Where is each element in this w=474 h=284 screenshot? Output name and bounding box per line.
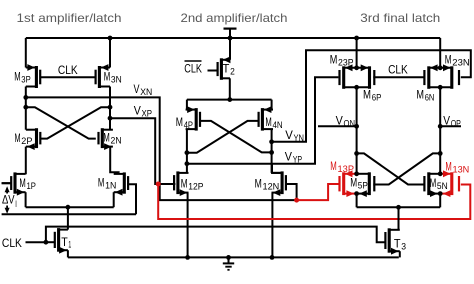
svg-text:5P: 5P bbox=[358, 181, 368, 191]
wire M4N gate lead + diagonal bbox=[187, 121, 259, 153]
svg-text:CLK: CLK bbox=[58, 63, 78, 77]
svg-text:V: V bbox=[134, 103, 141, 117]
svg-text:XP: XP bbox=[142, 108, 153, 118]
wire T1 drain up bbox=[67, 207, 69, 229]
svg-text:M: M bbox=[176, 115, 183, 129]
svg-text:3rd final latch: 3rd final latch bbox=[360, 11, 440, 25]
transistor M2N bbox=[101, 128, 104, 148]
wire tail node section1 bbox=[26, 206, 114, 208]
svg-text:3P: 3P bbox=[21, 74, 30, 84]
wire M1N gate riser bbox=[128, 184, 136, 214]
transistor M2P bbox=[35, 128, 38, 148]
node cross-couple right bbox=[108, 105, 113, 110]
wire M3N source to VDD bbox=[109, 38, 111, 68]
wire M1P source down bbox=[25, 192, 27, 207]
svg-text:T: T bbox=[61, 235, 68, 249]
wire CLK gates M3P-M3N bbox=[40, 76, 95, 78]
svg-text:YN: YN bbox=[294, 133, 305, 143]
wire VYN route bbox=[272, 50, 471, 142]
wire T3 drain up bbox=[398, 207, 400, 230]
svg-text:T: T bbox=[394, 236, 401, 250]
wire M2N source down to M1N bbox=[110, 147, 118, 173]
svg-text:ON: ON bbox=[344, 119, 356, 129]
svg-text:M: M bbox=[15, 131, 21, 145]
transistor pair M13P M5P bbox=[342, 172, 345, 195]
wire tail U left bbox=[356, 194, 358, 207]
node diag tap left bbox=[185, 150, 190, 155]
svg-text:CLK: CLK bbox=[2, 236, 22, 250]
wire VON node bbox=[356, 87, 358, 173]
transistor pair M6N M23N bbox=[427, 66, 430, 89]
node VOP tick tap bbox=[438, 124, 443, 129]
wire dVI bottom line bbox=[2, 213, 136, 215]
transistor M12P bbox=[176, 171, 179, 194]
svg-text:1N: 1N bbox=[105, 181, 116, 191]
wire M3P drain down bbox=[25, 87, 27, 130]
svg-text:M: M bbox=[416, 88, 424, 102]
node gnd symbol tap bbox=[226, 255, 231, 260]
svg-text:4P: 4P bbox=[184, 120, 193, 130]
svg-text:3: 3 bbox=[401, 241, 406, 251]
node VYN tap bbox=[269, 139, 274, 144]
wire M4N source lead bbox=[271, 100, 273, 110]
transistor M3P bbox=[35, 66, 38, 88]
svg-text:M: M bbox=[330, 52, 338, 66]
svg-text:12N: 12N bbox=[263, 181, 280, 191]
node gnd M12P bbox=[185, 255, 190, 260]
node VOP diag tap bbox=[438, 151, 443, 156]
wire dVI top terminal bbox=[2, 182, 12, 184]
svg-text:M: M bbox=[104, 70, 111, 84]
wire red VXN to M13P bbox=[297, 184, 341, 200]
svg-text:M: M bbox=[181, 176, 188, 190]
wire VXN route bbox=[26, 97, 297, 200]
wire T2 drain down bbox=[229, 78, 231, 99]
svg-text:23N: 23N bbox=[452, 57, 469, 67]
wire M4N drain down bbox=[271, 129, 273, 173]
transistor pair M23P M6P bbox=[342, 66, 345, 89]
transistor M3N bbox=[98, 66, 101, 88]
wire CLK input lead bbox=[26, 241, 46, 243]
wire VXP route bbox=[110, 118, 175, 184]
wire VYP route bbox=[187, 77, 339, 164]
svg-text:V: V bbox=[285, 128, 293, 142]
svg-text:M: M bbox=[255, 176, 262, 190]
wire diagonal to M2N gate bbox=[26, 107, 96, 138]
wire T2 source to VDD bbox=[229, 38, 231, 60]
svg-text:5N: 5N bbox=[437, 181, 448, 191]
svg-text:M: M bbox=[430, 176, 437, 190]
svg-text:1: 1 bbox=[68, 240, 71, 250]
svg-text:1P: 1P bbox=[27, 181, 36, 191]
wire red VXP to M13N bbox=[158, 184, 470, 219]
node VXN junction bbox=[23, 95, 28, 100]
transistor T3 bbox=[388, 228, 391, 252]
node VDD tap left PMOS pair bbox=[354, 36, 359, 41]
wire diagonal to M2P gate bbox=[40, 107, 110, 138]
wire M5N gate diagonal bbox=[357, 153, 426, 184]
wire VOP node bbox=[439, 87, 441, 173]
svg-text:XN: XN bbox=[140, 87, 152, 97]
svg-text:T: T bbox=[223, 61, 231, 75]
node VON tick tap bbox=[354, 124, 359, 129]
svg-text:V: V bbox=[443, 113, 450, 127]
node tail T3 tap bbox=[396, 205, 401, 210]
wire VON tick bbox=[318, 125, 357, 127]
svg-text:M: M bbox=[445, 52, 452, 66]
node latch2 top bbox=[227, 97, 232, 102]
svg-text:M: M bbox=[14, 69, 20, 83]
wire M4P drain down bbox=[186, 129, 188, 173]
node cross-couple left bbox=[23, 105, 28, 110]
svg-text:CLK: CLK bbox=[388, 62, 408, 76]
wire ground rail bbox=[68, 256, 399, 258]
svg-text:M: M bbox=[330, 159, 337, 173]
svg-text:ΔV: ΔV bbox=[2, 193, 15, 207]
wire M12N drain jog bbox=[272, 164, 282, 173]
svg-text:2N: 2N bbox=[111, 135, 122, 145]
svg-text:23P: 23P bbox=[338, 57, 354, 67]
svg-text:CLK: CLK bbox=[184, 62, 202, 76]
node tail T1 tap bbox=[66, 205, 71, 210]
arrow dVI down bbox=[6, 206, 8, 211]
node gnd M12N bbox=[270, 255, 275, 260]
transistor M4N bbox=[261, 108, 264, 131]
svg-text:4N: 4N bbox=[273, 120, 283, 130]
node VXP junction bbox=[108, 116, 113, 121]
svg-text:V: V bbox=[134, 82, 140, 96]
wire M12P source down bbox=[187, 193, 189, 258]
svg-text:M: M bbox=[445, 159, 451, 173]
svg-text:M: M bbox=[103, 130, 109, 144]
svg-text:OP: OP bbox=[451, 118, 461, 128]
node diag tap right bbox=[269, 150, 274, 155]
transistor T1 bbox=[57, 228, 60, 252]
svg-text:6N: 6N bbox=[425, 93, 435, 103]
svg-text:V: V bbox=[336, 114, 343, 128]
svg-text:2P: 2P bbox=[21, 136, 32, 146]
wire M23P-M6P vdd feed bbox=[356, 38, 358, 68]
wire T2 gate lead bbox=[208, 70, 219, 72]
wire tail U bottom bbox=[357, 206, 441, 208]
node VON diag tap bbox=[354, 151, 359, 156]
wire VDD drop to right PMOS pair bbox=[439, 38, 441, 68]
svg-text:3N: 3N bbox=[111, 75, 122, 85]
wire T1 source down bbox=[67, 250, 69, 257]
wire M3N drain down bbox=[109, 87, 111, 130]
svg-text:M: M bbox=[19, 176, 25, 190]
wire M3P source to VDD bbox=[25, 38, 27, 68]
arrow dVI up bbox=[6, 189, 8, 194]
wire M1N source down bbox=[113, 192, 115, 207]
svg-text:13N: 13N bbox=[453, 164, 470, 174]
svg-text:M: M bbox=[363, 88, 371, 102]
svg-text:I: I bbox=[15, 199, 17, 209]
svg-text:V: V bbox=[285, 149, 292, 163]
svg-text:2nd amplifier/latch: 2nd amplifier/latch bbox=[181, 11, 288, 25]
node VDD tap M3N bbox=[108, 36, 113, 41]
svg-text:M: M bbox=[265, 115, 271, 129]
wire M12N source down bbox=[271, 193, 273, 258]
node VYP tap bbox=[185, 161, 190, 166]
ground symbol bbox=[228, 257, 230, 263]
svg-text:M: M bbox=[350, 176, 357, 190]
svg-text:M: M bbox=[98, 176, 105, 190]
wire VDD rail bbox=[26, 37, 440, 39]
wire VOP tick bbox=[440, 125, 461, 127]
transistor M1P bbox=[13, 172, 16, 193]
transistor T2 bbox=[220, 58, 223, 80]
svg-text:12P: 12P bbox=[188, 181, 203, 191]
wire latch2 top line bbox=[187, 99, 272, 101]
svg-text:YP: YP bbox=[293, 154, 302, 164]
wire CLK route to T3 bbox=[46, 227, 386, 243]
svg-text:6P: 6P bbox=[372, 93, 382, 103]
node VXN red tap bbox=[294, 198, 299, 203]
power supply symbol bbox=[224, 28, 237, 30]
wire M1P gate lead bbox=[2, 182, 12, 184]
transistor pair M5N M13N bbox=[427, 172, 430, 195]
wire M5P gate diagonal bbox=[373, 153, 440, 184]
node VDD tap T2 bbox=[228, 36, 233, 41]
transistor M1N bbox=[123, 172, 126, 193]
wire T3 source down bbox=[399, 251, 401, 257]
svg-text:2: 2 bbox=[230, 66, 235, 76]
node CLK junction bbox=[44, 240, 49, 245]
wire tail U right bbox=[439, 194, 441, 207]
transistor M12N bbox=[281, 171, 284, 194]
wire T1 gate lead bbox=[46, 241, 55, 243]
node VXP red tap bbox=[156, 182, 161, 187]
wire M4P gate lead + diagonal bbox=[200, 121, 272, 152]
svg-text:1st amplifier/latch: 1st amplifier/latch bbox=[17, 11, 122, 25]
wire M2P source down bbox=[25, 147, 27, 175]
wire M4P source lead bbox=[186, 100, 188, 110]
transistor M4P bbox=[195, 108, 198, 131]
svg-text:13P: 13P bbox=[338, 164, 355, 174]
wire CLK gates M6P-M6N bbox=[373, 76, 425, 78]
